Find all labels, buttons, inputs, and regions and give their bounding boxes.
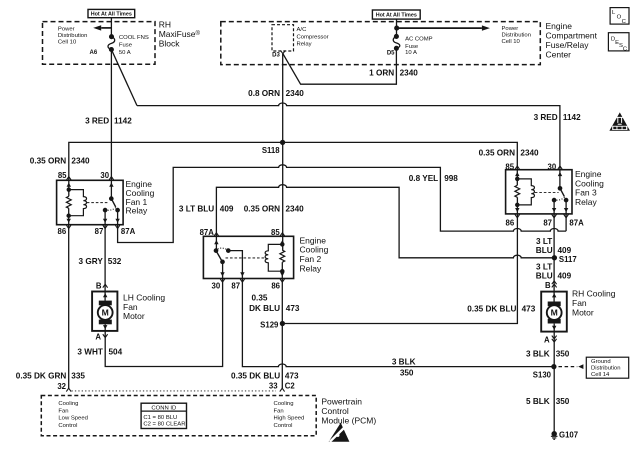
pin chevron RH motor A double <box>552 336 557 343</box>
svg-text:Power: Power <box>58 26 75 32</box>
relay2 switch pivot <box>214 249 217 252</box>
svg-text:Block: Block <box>159 39 181 49</box>
Ground Distribution Cell 14 box <box>586 357 628 378</box>
relay2 arrow down pin 86 <box>280 272 284 276</box>
svg-text:473: 473 <box>286 304 300 313</box>
svg-text:0.8 YEL: 0.8 YEL <box>409 174 438 183</box>
relay U2 Engine Cooling Fan 2 box <box>203 236 293 278</box>
svg-text:2340: 2340 <box>71 157 90 166</box>
svg-text:30: 30 <box>548 162 557 171</box>
svg-text:Hot At All Times: Hot At All Times <box>376 13 417 19</box>
svg-text:1 ORN: 1 ORN <box>369 68 394 77</box>
relay1 coil resistor <box>66 196 71 208</box>
relay3 coil resistor <box>515 185 520 197</box>
fuse COOL FNS 50A symbol <box>108 37 115 50</box>
LH motor circle M <box>98 305 113 320</box>
svg-text:BLU: BLU <box>536 271 553 280</box>
arrowhead ground reference <box>578 364 583 369</box>
RH motor brush top <box>548 302 561 307</box>
pin chevron relay2 30 <box>220 279 225 283</box>
svg-text:3 LT: 3 LT <box>536 237 552 246</box>
node S129 <box>280 322 284 326</box>
relay3 arrow down pin 87 <box>552 208 556 212</box>
svg-text:0.35: 0.35 <box>252 293 268 302</box>
relay1 coil-switch dashed link <box>87 202 108 204</box>
relay1 arrow up pin 30 <box>109 183 113 187</box>
svg-text:409: 409 <box>558 271 572 280</box>
pin chevron LH motor A <box>103 334 108 338</box>
wire Hot box left to fuse <box>110 18 112 37</box>
svg-text:C: C <box>623 46 628 52</box>
svg-text:S130: S130 <box>533 371 552 380</box>
ESD triangle at PCM <box>329 423 350 442</box>
svg-text:Ground: Ground <box>591 359 611 365</box>
svg-text:Relay: Relay <box>300 264 322 274</box>
RH motor arrow up <box>552 293 556 297</box>
svg-text:Low Speed: Low Speed <box>58 416 87 422</box>
relay1 coil node bottom <box>67 214 70 217</box>
svg-text:85: 85 <box>58 171 67 180</box>
svg-text:Motor: Motor <box>123 311 145 321</box>
wire 3 WHT 504 (LH motor A to relay2 pin 30) <box>105 262 222 367</box>
wire arrow to Power Distribution Cell 10 right <box>397 27 482 29</box>
svg-text:86: 86 <box>271 281 280 290</box>
relay3 switch rest dotted <box>556 197 564 200</box>
svg-text:87: 87 <box>95 227 104 236</box>
svg-text:2340: 2340 <box>520 149 539 158</box>
svg-text:Cell 14: Cell 14 <box>591 372 610 378</box>
pin chevron relay2 87 <box>240 279 245 283</box>
relay3 arrow down pin 86 <box>515 208 519 212</box>
svg-text:S117: S117 <box>559 255 577 264</box>
svg-text:Cell 10: Cell 10 <box>58 40 77 46</box>
pin chevron relay3 86 <box>515 214 520 218</box>
svg-text:350: 350 <box>556 350 570 359</box>
svg-text:Fuse: Fuse <box>405 44 419 50</box>
LH Cooling Fan Motor box <box>92 292 117 331</box>
svg-text:87A: 87A <box>121 227 136 236</box>
relay1 switch arm <box>111 199 115 207</box>
svg-text:Fan: Fan <box>58 408 68 414</box>
pin chevron relay2 86 <box>280 279 285 283</box>
svg-text:0.8 ORN: 0.8 ORN <box>248 89 280 98</box>
relay1 arrow down pin 87A <box>115 219 119 223</box>
svg-text:335: 335 <box>71 372 85 381</box>
svg-text:0.35 DK GRN: 0.35 DK GRN <box>16 372 67 381</box>
node S130 <box>552 365 556 369</box>
svg-text:1142: 1142 <box>114 117 132 126</box>
svg-text:High Speed: High Speed <box>274 416 305 422</box>
svg-text:M: M <box>102 308 109 318</box>
svg-text:0.35 ORN: 0.35 ORN <box>479 149 515 158</box>
svg-text:5 BLK: 5 BLK <box>526 397 550 406</box>
svg-text:C: C <box>622 19 627 25</box>
pin chevron relay2 85 <box>280 233 285 237</box>
svg-text:A: A <box>95 333 101 342</box>
pin chevron relay2 87A <box>214 233 219 237</box>
LH motor brush top <box>99 301 112 306</box>
svg-text:Power: Power <box>502 26 519 32</box>
RH motor brush bottom <box>548 319 561 324</box>
node fuse bottom A6 <box>110 48 114 52</box>
svg-text:473: 473 <box>285 372 299 381</box>
node S117 <box>552 256 556 260</box>
relay2 arrow down pin 87 <box>240 272 244 276</box>
relay2 arrow up pin 87A <box>214 240 218 244</box>
relay1 arrow down pin 87 <box>103 219 107 223</box>
LH motor arrow up <box>103 293 107 297</box>
svg-text:3 BLK: 3 BLK <box>526 350 550 359</box>
svg-text:COOL FNS: COOL FNS <box>119 35 149 41</box>
svg-text:A: A <box>544 336 550 345</box>
svg-text:A/C: A/C <box>297 27 308 33</box>
svg-text:3 WHT: 3 WHT <box>77 348 102 357</box>
RH motor arrow down <box>552 326 556 330</box>
arrowhead left <box>93 25 101 30</box>
ground G107 node <box>552 432 556 436</box>
svg-text:30: 30 <box>100 171 109 180</box>
pin chevron LH motor B <box>103 284 108 288</box>
pin 32 chevron <box>66 388 71 391</box>
ESD triangle slash <box>330 427 346 442</box>
svg-text:0.35 DK BLU: 0.35 DK BLU <box>467 305 516 314</box>
wire 1 ORN 2340 (AC fuse to D3) <box>283 48 397 84</box>
svg-text:Relay: Relay <box>297 42 312 48</box>
svg-text:Relay: Relay <box>126 206 148 216</box>
relay2 arrow down pin 30 <box>220 272 224 276</box>
svg-text:86: 86 <box>58 227 67 236</box>
pin chevron relay3 30 <box>558 166 563 170</box>
node S118 <box>281 140 285 144</box>
wire relay3 87 to RH motor B through S117 <box>553 200 555 302</box>
svg-text:998: 998 <box>444 174 458 183</box>
svg-text:Distribution: Distribution <box>502 33 531 39</box>
pin chevron RH motor B double <box>552 281 557 288</box>
pin chevron relay3 87 <box>552 214 557 218</box>
svg-text:Cooling: Cooling <box>274 401 294 407</box>
LH motor brush bottom <box>99 320 112 325</box>
svg-text:Control: Control <box>58 423 77 429</box>
svg-text:S129: S129 <box>260 321 279 330</box>
caution triangle label band <box>612 126 627 130</box>
wire RH motor A to S130 to G107 (3 BLK 350 / 5 BLK 350) <box>553 324 555 434</box>
fuse AC COMP 10A symbol <box>393 36 400 48</box>
relay3 coil-switch dashed link <box>535 192 559 194</box>
svg-text:10 A: 10 A <box>405 50 417 56</box>
A/C Compressor Relay dashed box <box>272 25 294 51</box>
wire 3 GRY 532 (relay1 87 to LH motor B) <box>104 210 106 301</box>
svg-text:2340: 2340 <box>400 68 419 77</box>
relay1 coil inductor branch <box>69 190 87 216</box>
svg-text:Compartment: Compartment <box>546 30 598 40</box>
svg-text:3 LT BLU: 3 LT BLU <box>179 205 214 214</box>
svg-text:85: 85 <box>505 162 514 171</box>
svg-text:1142: 1142 <box>563 113 581 122</box>
svg-text:Center: Center <box>546 49 572 59</box>
svg-text:Relay: Relay <box>575 197 597 207</box>
wire 0.35 DK BLU 473 (relay2 86 coil to S129 to PCM pin 33) <box>281 262 283 388</box>
relay3 coil node top <box>516 177 519 180</box>
relay2 coil node top <box>281 243 284 246</box>
relay1 switch pivot <box>110 197 113 200</box>
svg-text:Motor: Motor <box>572 307 594 317</box>
relay3 coil inductor branch <box>517 179 534 205</box>
CONN ID divider <box>141 410 186 412</box>
svg-text:Control: Control <box>274 423 293 429</box>
node arrow branch right <box>395 26 399 30</box>
caution triangle pi mark <box>616 117 623 124</box>
svg-text:D3: D3 <box>272 53 280 59</box>
wire dotted C2 connector line <box>72 390 277 392</box>
svg-text:87: 87 <box>231 281 240 290</box>
svg-text:3 RED: 3 RED <box>534 113 558 122</box>
svg-text:Distribution: Distribution <box>58 33 87 39</box>
pin chevron relay1 86 <box>66 225 71 229</box>
pin chevron relay3 87A <box>564 214 569 218</box>
pin chevron relay1 87A <box>115 225 120 229</box>
svg-text:C2: C2 <box>285 382 296 391</box>
relay2 contact 87 <box>227 249 230 252</box>
relay2 switch rest dotted <box>218 248 227 249</box>
relay1 contact 87A <box>116 208 119 211</box>
svg-text:532: 532 <box>108 257 122 266</box>
svg-text:33: 33 <box>269 382 278 391</box>
Hot At All Times box right <box>372 10 420 19</box>
svg-text:50 A: 50 A <box>119 50 131 56</box>
svg-text:350: 350 <box>400 368 414 377</box>
svg-text:2340: 2340 <box>286 205 305 214</box>
relay2 contact 30 <box>221 260 224 263</box>
relay1 arrow up pin 85 <box>67 183 71 187</box>
ESD triangle hand dot <box>336 434 339 437</box>
relay U3 Engine Cooling Fan 3 box <box>506 170 572 214</box>
svg-text:Fan: Fan <box>274 408 284 414</box>
svg-text:3 RED: 3 RED <box>85 117 109 126</box>
svg-text:L: L <box>612 10 616 16</box>
caution triangle top right <box>609 112 630 130</box>
svg-text:Fuse/Relay: Fuse/Relay <box>546 40 590 50</box>
wire S129 line to relay3 86 coil <box>282 197 517 323</box>
DESC box <box>608 33 629 51</box>
svg-text:A6: A6 <box>90 50 98 56</box>
svg-text:0.35 ORN: 0.35 ORN <box>30 157 66 166</box>
relay1 contact 87 <box>103 208 106 211</box>
relay3 contact 87A <box>564 198 567 201</box>
svg-text:B: B <box>545 281 551 290</box>
svg-text:87A: 87A <box>569 218 584 227</box>
svg-text:Hot At All Times: Hot At All Times <box>91 12 132 18</box>
relay1 coil node top <box>67 188 70 191</box>
svg-text:3 LT: 3 LT <box>536 262 552 271</box>
svg-text:504: 504 <box>109 348 123 357</box>
svg-text:350: 350 <box>556 397 570 406</box>
svg-text:86: 86 <box>506 218 515 227</box>
pin chevron D3 <box>281 50 286 53</box>
RH MaxiFuse Block dashed box <box>43 22 156 65</box>
svg-text:B: B <box>96 281 102 290</box>
relay2 coil inductor branch <box>265 244 282 271</box>
wire 0.35 DK GRN 335 (relay1 86 coil to PCM pin 32) <box>68 208 70 388</box>
svg-text:0.35 ORN: 0.35 ORN <box>244 205 280 214</box>
wire relay3 87A pin stub <box>565 200 567 231</box>
wire dashed S130 to Ground Distribution <box>559 366 578 368</box>
svg-text:87: 87 <box>543 218 552 227</box>
Engine Compartment Fuse/Relay Center dashed box <box>221 22 541 65</box>
svg-text:Cell 10: Cell 10 <box>502 39 521 45</box>
svg-text:87A: 87A <box>200 228 215 237</box>
relay1 87A contact stub <box>117 210 119 228</box>
wire main 3 RED feed to relay3 pin 30 (hop at ORN wire) <box>137 103 560 188</box>
RH Cooling Fan Motor box <box>541 292 567 332</box>
svg-text:Cooling: Cooling <box>58 401 78 407</box>
relay2 coil-switch dashed link <box>226 257 265 259</box>
svg-text:D5: D5 <box>387 50 395 56</box>
svg-text:C2 = 80 CLEAR: C2 = 80 CLEAR <box>143 421 185 427</box>
relay3 coil node bottom <box>516 203 519 206</box>
relay1 switch rest dotted <box>107 208 116 211</box>
svg-text:3 BLK: 3 BLK <box>392 358 416 367</box>
relay3 arrow down pin 87A <box>564 208 568 212</box>
RH motor circle M <box>547 305 562 320</box>
pin chevron relay1 87 <box>103 225 108 229</box>
relay3 switch arm <box>560 188 564 196</box>
relay2 arrow up pin 85 <box>280 240 284 244</box>
wire diagonal fuse to main feed <box>111 50 137 106</box>
CONN ID box <box>141 403 186 428</box>
wire S118 line (relay1 85 coil to relay3 85 coil) <box>69 142 518 196</box>
svg-text:30: 30 <box>212 281 221 290</box>
svg-text:Engine: Engine <box>546 21 573 31</box>
svg-text:Distribution: Distribution <box>591 366 620 372</box>
wire 3 LT BLU 409 net (relay2 87A to S117, hop at ORN wire and DKBLU wire) <box>216 185 554 258</box>
relay2 coil node bottom <box>281 270 284 273</box>
pin chevron relay3 85 <box>515 166 520 170</box>
pin chevron relay1 30 <box>109 177 114 181</box>
relay U1 Engine Cooling Fan 1 box <box>57 180 124 224</box>
svg-text:Fuse: Fuse <box>119 43 133 49</box>
wire arrow to Power Distribution Cell 10 left <box>101 27 111 29</box>
svg-text:2340: 2340 <box>286 89 305 98</box>
Hot At All Times box left <box>88 9 135 17</box>
node AC fuse top <box>395 35 399 39</box>
LOC box <box>610 8 629 25</box>
svg-text:AC COMP: AC COMP <box>405 37 433 43</box>
svg-text:Module (PCM): Module (PCM) <box>321 416 376 426</box>
svg-text:M: M <box>551 308 558 318</box>
svg-text:S118: S118 <box>262 146 280 155</box>
svg-text:CONN ID: CONN ID <box>151 406 176 412</box>
ground symbol G107 <box>551 436 558 439</box>
svg-text:DK BLU: DK BLU <box>249 304 280 313</box>
relay3 contact 87 <box>552 198 555 201</box>
node fuse top <box>110 35 114 39</box>
svg-text:473: 473 <box>522 305 536 314</box>
caution triangle band marks <box>613 127 616 130</box>
pin chevron relay1 85 <box>66 177 71 181</box>
relay3 switch pivot <box>558 187 561 190</box>
svg-text:409: 409 <box>220 205 234 214</box>
arrowhead right <box>482 25 490 30</box>
PCM dashed box <box>41 396 316 436</box>
relay1 arrow down pin 86 <box>67 219 71 223</box>
wire Hot box right to AC COMP fuse <box>396 19 398 36</box>
svg-text:0.35 DK BLU: 0.35 DK BLU <box>231 372 280 381</box>
pin 33 chevron <box>280 388 285 391</box>
relay3 arrow up pin 85 <box>515 172 519 176</box>
node AC fuse bottom D5 <box>395 46 399 50</box>
svg-text:BLU: BLU <box>536 246 553 255</box>
wire 0.8 ORN 2340 (D3 down to relay2 pin 85 through S118) <box>282 54 284 251</box>
svg-text:G107: G107 <box>559 431 578 440</box>
svg-text:Compressor: Compressor <box>297 34 329 40</box>
wire 3 RED 1142 left (fuse to relay1 pin 30) <box>110 50 112 199</box>
relay2 coil resistor <box>280 250 285 262</box>
LH motor arrow down <box>103 325 107 329</box>
svg-text:3 GRY: 3 GRY <box>79 257 104 266</box>
svg-text:32: 32 <box>57 382 66 391</box>
svg-text:C1 = 80 BLU: C1 = 80 BLU <box>143 415 177 421</box>
svg-text:85: 85 <box>271 228 280 237</box>
wire 0.8 YEL 998 net (relay1 87A to relay3 87A, hops at ORN, DKBLU, 87 wires) <box>118 165 566 243</box>
relay2 switch arm <box>216 251 222 262</box>
wire 3 BLK 350 (relay2 87 to S130, hop at DK BLU wire) <box>228 251 554 367</box>
svg-text:409: 409 <box>558 246 572 255</box>
relay3 arrow up pin 30 <box>558 172 562 176</box>
